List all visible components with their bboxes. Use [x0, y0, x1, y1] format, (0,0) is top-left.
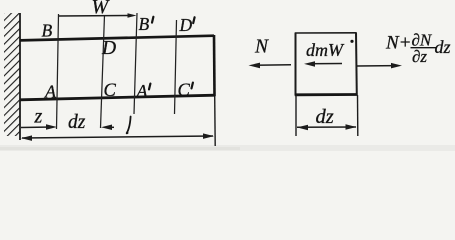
beam bottom edge — [20, 95, 216, 100]
inertia arrowhead — [304, 61, 315, 66]
svg-text:D: D — [179, 15, 193, 35]
section line C'D' — [175, 20, 177, 114]
beam top edge — [20, 36, 214, 41]
element dz left arrowhead — [297, 125, 308, 131]
svg-text:C: C — [178, 81, 191, 101]
svg-text:N+: N+ — [385, 33, 412, 54]
dot over W — [350, 40, 353, 43]
label A' — [136, 81, 151, 101]
fixed wall hatching — [4, 13, 20, 136]
section line A'B' — [134, 13, 137, 114]
label l — [127, 117, 131, 134]
right edge extension to l dimension — [214, 96, 217, 146]
section line AB — [57, 14, 59, 129]
element dz extension line left — [295, 95, 297, 136]
section line CD — [101, 15, 105, 128]
label C' — [178, 81, 193, 101]
svg-text:B: B — [139, 14, 150, 34]
svg-text:∂z: ∂z — [412, 47, 427, 66]
svg-text:W: W — [92, 0, 111, 18]
force N arrow tail — [253, 64, 291, 67]
label B' — [139, 14, 154, 34]
svg-text:D: D — [101, 38, 116, 59]
element box left edge — [295, 33, 297, 96]
dimension dz arrow tail — [108, 126, 114, 128]
force N arrowhead — [249, 63, 261, 69]
background paper — [0, 0, 455, 151]
svg-text:A: A — [44, 82, 57, 102]
dimension z arrowhead — [46, 124, 57, 130]
dimension z line — [21, 126, 53, 129]
element dz extension line right — [357, 95, 359, 136]
force N+dN arrowhead — [391, 63, 402, 69]
force N+dN arrow tail — [357, 65, 398, 67]
svg-text:dz: dz — [316, 106, 334, 128]
dimension l line — [22, 136, 213, 138]
element box bottom edge — [295, 93, 357, 96]
dimension l right arrowhead — [203, 133, 214, 139]
dimension l left arrowhead — [21, 135, 32, 141]
wall face line — [19, 13, 21, 140]
element box top edge — [295, 32, 357, 34]
bottom scan shadow band — [0, 145, 455, 151]
dimension W line — [59, 15, 134, 18]
element box right edge — [355, 33, 358, 96]
svg-text:N: N — [254, 37, 269, 58]
beam right edge — [213, 35, 216, 96]
inertia arrow tail — [308, 63, 342, 65]
element dz right arrowhead — [346, 124, 357, 130]
dimension dz left-pointing arrowhead — [101, 125, 112, 131]
fraction bar — [411, 47, 438, 49]
dimension W arrowhead — [128, 13, 137, 18]
svg-text:dz: dz — [435, 37, 451, 57]
svg-text:C: C — [104, 81, 117, 101]
label D' — [179, 15, 195, 35]
svg-text:z: z — [34, 106, 43, 128]
svg-text:B: B — [42, 21, 53, 41]
element dz dimension line — [297, 126, 356, 128]
svg-text:A: A — [136, 81, 149, 101]
svg-text:dmW: dmW — [306, 40, 345, 60]
svg-text:dz: dz — [68, 112, 86, 133]
